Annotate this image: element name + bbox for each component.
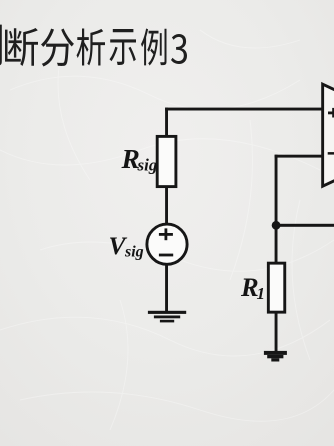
minus sign in Vsig	[159, 254, 173, 257]
svg-text:1: 1	[257, 284, 266, 303]
title char 分	[41, 29, 74, 67]
title char 析	[77, 29, 106, 66]
title char 示	[110, 29, 137, 65]
title char 判	[0, 24, 2, 66]
node junction dot	[272, 221, 281, 230]
wire R1 to ground	[275, 313, 278, 352]
wire top horizontal (Rsig top to op-amp + input)	[165, 108, 322, 111]
op-amp U1	[323, 84, 334, 186]
wire Rsig to Vsig	[165, 187, 168, 224]
svg-text:sig: sig	[137, 156, 158, 175]
wire Vsig to ground	[165, 265, 168, 312]
resistor Rsig	[157, 136, 176, 186]
plus sign in Vsig	[159, 233, 173, 236]
title char 3	[171, 34, 187, 64]
source Vsig	[147, 224, 187, 264]
ground (R1, stepped triangle)	[264, 351, 287, 355]
wire inverting input horizontal	[275, 155, 323, 158]
resistor R1	[268, 263, 284, 312]
svg-text:sig: sig	[124, 244, 144, 261]
ground (Vsig)	[148, 311, 186, 314]
wire node to right edge	[276, 224, 334, 227]
title char 断	[5, 28, 38, 66]
op-amp + input marking	[328, 112, 334, 115]
wire node down to R1	[275, 225, 278, 262]
title char 例	[141, 29, 167, 66]
wire inverting input vertical down to node	[275, 155, 278, 226]
wire corner vertical down to Rsig	[165, 108, 168, 137]
op-amp - input marking	[328, 152, 334, 155]
